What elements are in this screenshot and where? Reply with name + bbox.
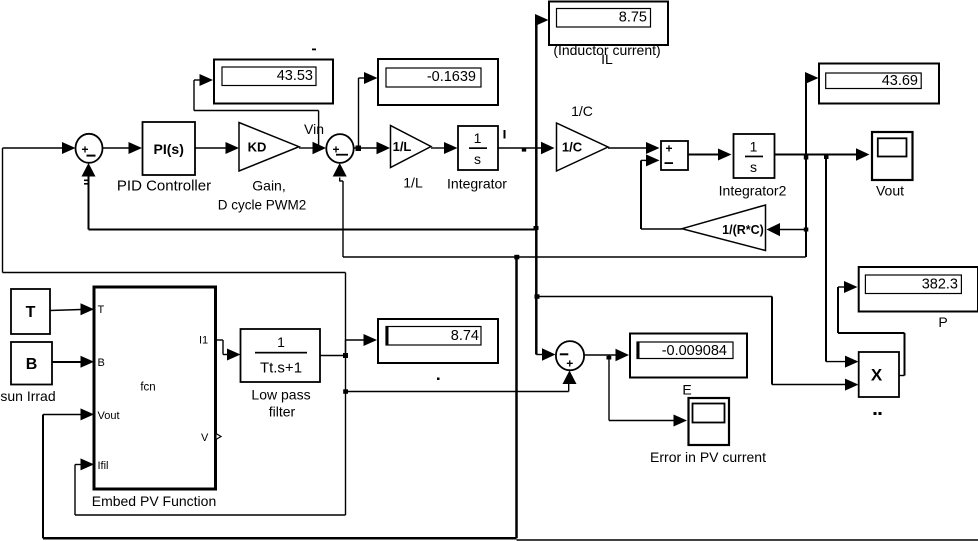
wire: sum rect to Integrator2: [688, 149, 732, 161]
display D6 value -0.009084 (E): [630, 334, 747, 398]
gain 1/L: [391, 126, 432, 191]
svg-text:1/L: 1/L: [393, 139, 412, 154]
svg-text:1/C: 1/C: [571, 103, 593, 119]
wire: into 1/(R*C) from Vout line: [767, 223, 806, 236]
artifact dash: [312, 49, 316, 51]
svg-text:1/(R*C): 1/(R*C): [722, 223, 764, 237]
display D7 value 382.3 (P): [859, 267, 978, 330]
svg-text:s: s: [474, 151, 481, 167]
svg-text:1/C: 1/C: [562, 140, 583, 155]
wire: sum2 bottom input (Vout feedback): [333, 163, 347, 257]
svg-text:B: B: [26, 356, 38, 373]
wire: X lower input from IL trunk: [535, 294, 859, 390]
gain 1/C: [557, 103, 609, 171]
svg-text:Vout: Vout: [98, 410, 120, 422]
wire: IL vertical trunk: [535, 14, 556, 361]
wire: 1/(R*C) output up to sum rect lower port: [641, 154, 682, 229]
sum S3: [556, 341, 584, 370]
svg-text:sun Irrad: sun Irrad: [0, 388, 55, 404]
node Vin label: [304, 121, 324, 137]
svg-text:Embed PV Function: Embed PV Function: [92, 493, 217, 509]
wire: branch to error scope: [609, 355, 687, 427]
svg-text:Integrator: Integrator: [447, 176, 507, 192]
display D1 value 43.53: [214, 60, 333, 104]
wire: sum1 to PID: [103, 142, 143, 154]
wire: sum1 feedback from IL trunk: [82, 163, 539, 230]
display D5 value 8.74: [378, 319, 498, 363]
wire: Ifil to sum3 bottom: [346, 371, 577, 392]
svg-text:Integrator2: Integrator2: [719, 183, 787, 199]
wire: tap up to display 43.69 and down to y=257: [804, 72, 819, 257]
wire: Ifil net vertical trunk: [343, 273, 348, 516]
wire: fcn I1 output to low pass filter: [216, 340, 241, 361]
svg-text:fcn: fcn: [140, 382, 155, 394]
svg-text:filter: filter: [269, 404, 296, 420]
wire: 1/L to Integrator: [431, 142, 458, 154]
wire: B to fcn: [52, 356, 94, 368]
svg-text:1: 1: [277, 334, 285, 350]
product block X: [859, 352, 899, 415]
wire: X output loop up to display P: [838, 281, 905, 376]
wire: KD to sum2: [299, 142, 326, 155]
svg-text:382.3: 382.3: [922, 277, 958, 293]
wire: filter output to Ifil net: [320, 353, 348, 358]
svg-text:1: 1: [750, 139, 758, 155]
wire: 1/C to sum rect upper port: [608, 142, 660, 154]
svg-text:8.74: 8.74: [451, 328, 479, 344]
wire: X upper input from Vout wire: [826, 156, 859, 368]
scope Vout: [872, 132, 913, 199]
svg-text:IL: IL: [601, 51, 613, 67]
svg-text:Gain,: Gain,: [252, 178, 285, 194]
svg-text:KD: KD: [248, 140, 267, 155]
PID Controller block U1: [117, 122, 211, 195]
wire: sum2 output to 1/L with display tap: [354, 142, 390, 155]
svg-text:Vout: Vout: [876, 183, 904, 199]
sum S2: [326, 134, 353, 163]
svg-text:PID Controller: PID Controller: [117, 178, 211, 195]
wire: Ifil feedback to fcn Ifil port: [75, 458, 346, 515]
svg-text:I1: I1: [199, 335, 208, 347]
svg-text:X: X: [871, 366, 883, 385]
source block T: [11, 289, 50, 334]
wire: tap to display 8.74: [346, 334, 378, 356]
svg-text:Vin: Vin: [304, 121, 324, 137]
display D3 value 8.75 (inductor current): [549, 2, 668, 68]
wire: bottom edge artifact line: [517, 539, 978, 541]
wire: PID to KD gain: [195, 142, 239, 154]
artifact dot: [437, 378, 440, 381]
svg-text:+: +: [566, 357, 573, 371]
svg-text:D cycle PWM2: D cycle PWM2: [218, 198, 307, 213]
wire: Integrator to 1/C: [498, 142, 555, 155]
transfer fcn low pass filter: [241, 329, 321, 420]
svg-text:+: +: [81, 143, 88, 157]
wire: Vout feedback horizontal y=257: [343, 255, 806, 259]
node I label tick: [504, 130, 506, 139]
gain KD (D cycle PWM2): [218, 123, 307, 213]
svg-text:s: s: [750, 159, 757, 175]
fcn block Embed PV Function: [92, 287, 221, 509]
svg-text:Ifil: Ifil: [98, 460, 109, 472]
sum S4 (rect sum): [661, 141, 688, 170]
scope Error in PV current: [650, 398, 766, 465]
svg-text:1/L: 1/L: [403, 175, 423, 191]
svg-text:PI(s): PI(s): [154, 141, 184, 157]
svg-text:T: T: [26, 304, 36, 321]
svg-text:T: T: [98, 304, 105, 316]
display D4 value 43.69: [819, 64, 939, 104]
wire: tap up to display -0.1639: [359, 72, 378, 148]
svg-text:-0.1639: -0.1639: [427, 69, 476, 85]
svg-text:43.53: 43.53: [277, 68, 313, 84]
svg-text:Tt.s+1: Tt.s+1: [260, 360, 302, 377]
wire: sum3 output to display E: [584, 349, 629, 362]
svg-text:1: 1: [474, 130, 482, 146]
wire: reference net left vertical to sum1: [3, 142, 346, 273]
sum S1: [76, 134, 103, 163]
wire: Integrator2 output to Vout scope: [775, 148, 870, 161]
wire: T to fcn: [50, 303, 94, 315]
svg-text:V: V: [201, 432, 209, 444]
gain 1/(R*C) left-pointing: [682, 205, 766, 251]
svg-text:43.69: 43.69: [882, 73, 918, 89]
svg-text:Error in PV current: Error in PV current: [650, 449, 766, 465]
wire: Vin tap up to display 43.53: [194, 74, 319, 148]
display D2 value -0.1639: [378, 59, 498, 105]
svg-text:E: E: [682, 382, 691, 398]
wire: Vout feedback right vertical and bottom run: [43, 257, 517, 538]
svg-text:Low pass: Low pass: [251, 387, 310, 403]
integrator2 1/s: [719, 134, 787, 199]
source block B (sun Irrad): [0, 342, 55, 404]
svg-text:P: P: [938, 314, 947, 330]
svg-text:8.75: 8.75: [619, 10, 647, 26]
svg-text:B: B: [98, 357, 105, 369]
svg-text:+: +: [665, 142, 672, 156]
integrator 1/s: [447, 126, 507, 192]
svg-text:-0.009084: -0.009084: [662, 343, 727, 359]
